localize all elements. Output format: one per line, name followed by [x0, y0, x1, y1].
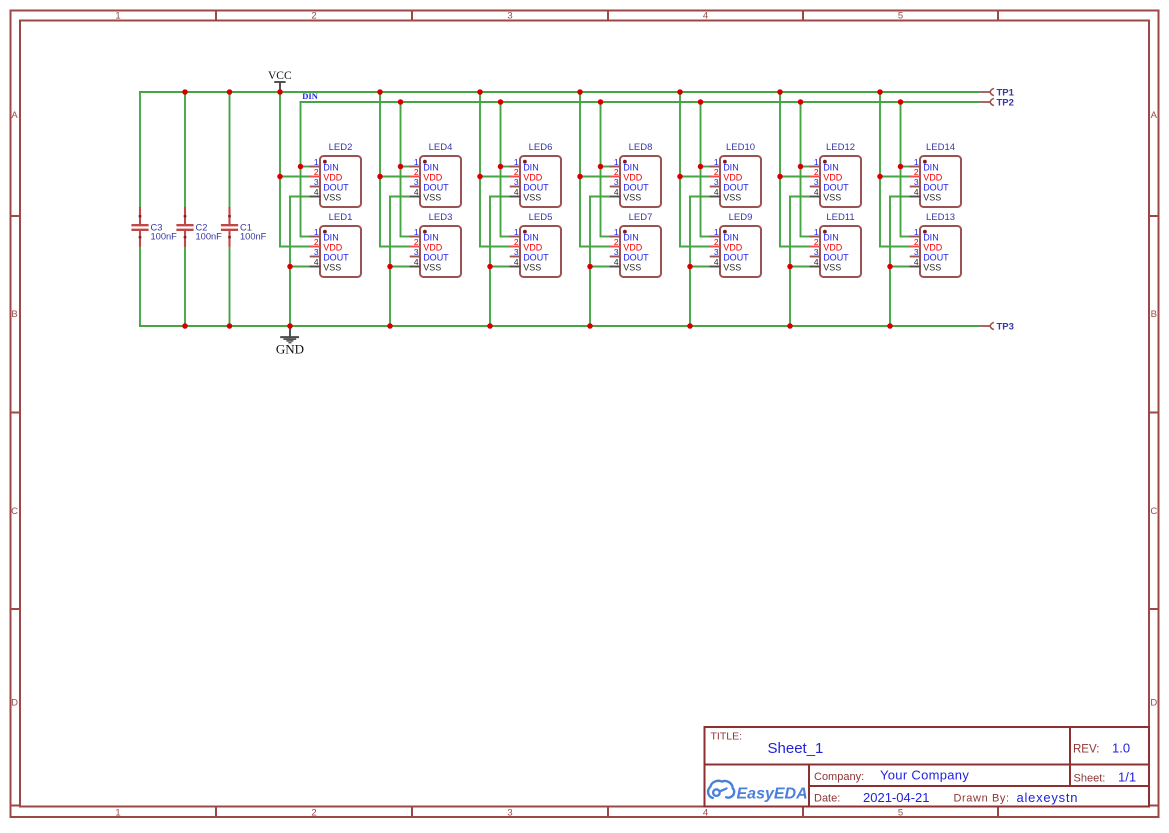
svg-text:VSS: VSS	[323, 263, 341, 273]
wire DIN rail	[300, 101, 980, 102]
svg-text:VSS: VSS	[923, 193, 941, 203]
svg-text:1: 1	[414, 227, 419, 237]
svg-text:DOUT: DOUT	[423, 253, 449, 263]
svg-text:Sheet:: Sheet:	[1074, 773, 1106, 785]
LED component LED4 (WS2812 style)	[410, 142, 461, 207]
svg-text:DOUT: DOUT	[923, 253, 949, 263]
svg-text:VDD: VDD	[823, 243, 843, 253]
svg-text:LED2: LED2	[329, 142, 353, 153]
svg-text:VDD: VDD	[723, 243, 743, 253]
LED component LED13 (WS2812 style)	[910, 212, 961, 277]
svg-text:VDD: VDD	[323, 243, 343, 253]
wire VSS return column 5	[689, 197, 711, 328]
svg-text:DOUT: DOUT	[623, 253, 649, 263]
svg-text:VSS: VSS	[823, 193, 841, 203]
svg-text:4: 4	[703, 808, 708, 819]
svg-text:DOUT: DOUT	[923, 183, 949, 193]
svg-text:REV:: REV:	[1073, 744, 1099, 756]
svg-text:VDD: VDD	[923, 173, 943, 183]
svg-text:5: 5	[898, 808, 903, 819]
svg-text:2: 2	[814, 237, 819, 247]
svg-text:VDD: VDD	[623, 173, 643, 183]
svg-text:2: 2	[414, 237, 419, 247]
svg-text:VSS: VSS	[623, 193, 641, 203]
svg-text:DOUT: DOUT	[523, 183, 549, 193]
svg-text:DOUT: DOUT	[723, 253, 749, 263]
svg-text:1: 1	[414, 157, 419, 167]
svg-text:DIN: DIN	[823, 163, 839, 173]
svg-text:1: 1	[314, 227, 319, 237]
svg-text:3: 3	[314, 247, 319, 257]
svg-text:A: A	[11, 110, 18, 121]
svg-text:3: 3	[507, 11, 512, 22]
svg-text:VSS: VSS	[623, 263, 641, 273]
svg-text:DIN: DIN	[523, 233, 539, 243]
svg-text:4: 4	[914, 187, 919, 197]
net label DIN	[302, 91, 318, 101]
LED component LED2 (WS2812 style)	[310, 142, 361, 207]
wire DIN feed column 1	[300, 102, 311, 237]
svg-text:3: 3	[714, 247, 719, 257]
svg-text:VDD: VDD	[523, 243, 543, 253]
wire VSS return column 6	[789, 197, 811, 328]
svg-text:VDD: VDD	[823, 173, 843, 183]
wire capacitor branch C2	[184, 91, 186, 327]
svg-text:VDD: VDD	[623, 243, 643, 253]
svg-text:3: 3	[314, 177, 319, 187]
svg-text:100nF: 100nF	[151, 231, 178, 241]
title block	[705, 727, 1150, 807]
svg-text:3: 3	[514, 247, 519, 257]
svg-text:DIN: DIN	[523, 163, 539, 173]
wire DIN feed column 6	[800, 102, 811, 237]
svg-text:DIN: DIN	[923, 163, 939, 173]
svg-text:1: 1	[914, 227, 919, 237]
svg-text:VDD: VDD	[423, 173, 443, 183]
LED component LED5 (WS2812 style)	[510, 212, 561, 277]
svg-text:2: 2	[914, 167, 919, 177]
svg-text:GND: GND	[276, 342, 304, 357]
svg-text:DIN: DIN	[302, 91, 318, 101]
svg-text:3: 3	[814, 177, 819, 187]
svg-text:2: 2	[514, 167, 519, 177]
svg-text:4: 4	[314, 257, 319, 267]
power flag VCC	[268, 70, 292, 92]
LED component LED7 (WS2812 style)	[610, 212, 661, 277]
svg-text:VSS: VSS	[723, 263, 741, 273]
svg-text:2: 2	[314, 167, 319, 177]
LED component LED3 (WS2812 style)	[410, 212, 461, 277]
svg-text:DIN: DIN	[323, 163, 339, 173]
wire VDD feed column 4	[579, 91, 611, 247]
svg-text:2: 2	[311, 11, 316, 22]
svg-text:3: 3	[514, 177, 519, 187]
svg-text:4: 4	[714, 257, 719, 267]
svg-text:4: 4	[914, 257, 919, 267]
svg-text:3: 3	[614, 247, 619, 257]
LED component LED6 (WS2812 style)	[510, 142, 561, 207]
svg-text:4: 4	[514, 257, 519, 267]
svg-text:4: 4	[614, 257, 619, 267]
svg-text:VSS: VSS	[423, 263, 441, 273]
svg-text:VDD: VDD	[723, 173, 743, 183]
svg-text:DIN: DIN	[823, 233, 839, 243]
svg-text:1: 1	[115, 808, 120, 819]
svg-text:DOUT: DOUT	[823, 253, 849, 263]
wire VDD feed column 7	[879, 91, 911, 247]
wire DIN feed column 7	[900, 102, 911, 237]
LED component LED11 (WS2812 style)	[810, 212, 861, 277]
svg-text:4: 4	[514, 187, 519, 197]
wire capacitor branch C3	[139, 91, 141, 327]
svg-text:1: 1	[614, 157, 619, 167]
capacitor C3 100nF	[131, 207, 177, 247]
svg-text:100nF: 100nF	[196, 231, 223, 241]
svg-text:LED8: LED8	[629, 142, 653, 153]
svg-text:1: 1	[514, 157, 519, 167]
svg-text:VSS: VSS	[723, 193, 741, 203]
test point TP3	[980, 321, 1014, 332]
svg-text:VSS: VSS	[323, 193, 341, 203]
svg-text:1: 1	[814, 157, 819, 167]
svg-text:LED13: LED13	[926, 212, 955, 223]
test point TP1	[980, 87, 1015, 98]
svg-text:DOUT: DOUT	[323, 253, 349, 263]
svg-text:4: 4	[414, 257, 419, 267]
svg-text:B: B	[1151, 309, 1157, 320]
test point TP2	[980, 97, 1014, 108]
svg-text:4: 4	[314, 187, 319, 197]
svg-text:2: 2	[714, 237, 719, 247]
wire capacitor branch C1	[229, 91, 231, 327]
svg-text:2: 2	[814, 167, 819, 177]
svg-text:VDD: VDD	[523, 173, 543, 183]
wire VCC top rail	[139, 91, 980, 93]
svg-text:1: 1	[714, 157, 719, 167]
LED component LED10 (WS2812 style)	[710, 142, 761, 207]
ground GND	[276, 326, 304, 357]
svg-text:2021-04-21: 2021-04-21	[863, 790, 930, 805]
svg-text:alexeystn: alexeystn	[1017, 790, 1079, 805]
svg-text:DOUT: DOUT	[623, 183, 649, 193]
LED component LED12 (WS2812 style)	[810, 142, 861, 207]
svg-text:1: 1	[314, 157, 319, 167]
svg-text:DOUT: DOUT	[823, 183, 849, 193]
svg-text:TITLE:: TITLE:	[711, 731, 743, 743]
svg-text:2: 2	[414, 167, 419, 177]
svg-text:LED7: LED7	[629, 212, 653, 223]
wire VSS return column 3	[489, 197, 511, 328]
svg-text:2: 2	[714, 167, 719, 177]
svg-text:1.0: 1.0	[1112, 741, 1130, 756]
svg-text:2: 2	[914, 237, 919, 247]
svg-text:C: C	[11, 506, 18, 517]
svg-text:Sheet_1: Sheet_1	[768, 740, 824, 757]
svg-text:3: 3	[714, 177, 719, 187]
svg-text:2: 2	[314, 237, 319, 247]
svg-text:EasyEDA: EasyEDA	[737, 786, 808, 803]
svg-text:LED3: LED3	[429, 212, 453, 223]
svg-text:5: 5	[898, 11, 903, 22]
svg-text:TP2: TP2	[997, 97, 1014, 108]
svg-text:VSS: VSS	[423, 193, 441, 203]
wire DIN feed column 4	[600, 102, 611, 237]
svg-text:D: D	[1150, 698, 1157, 709]
svg-text:DIN: DIN	[423, 163, 439, 173]
capacitor C2 100nF	[176, 207, 222, 247]
svg-text:VDD: VDD	[423, 243, 443, 253]
LED component LED9 (WS2812 style)	[710, 212, 761, 277]
svg-text:1: 1	[514, 227, 519, 237]
svg-text:LED6: LED6	[529, 142, 553, 153]
svg-text:C: C	[1150, 506, 1157, 517]
svg-text:1: 1	[814, 227, 819, 237]
wire DIN feed column 5	[700, 102, 711, 237]
svg-text:DIN: DIN	[723, 233, 739, 243]
svg-text:DIN: DIN	[623, 233, 639, 243]
svg-text:4: 4	[414, 187, 419, 197]
svg-text:LED11: LED11	[826, 212, 854, 223]
wire VDD feed column 3	[479, 91, 511, 247]
svg-text:1: 1	[914, 157, 919, 167]
svg-text:B: B	[11, 309, 17, 320]
svg-text:D: D	[11, 698, 18, 709]
svg-text:3: 3	[507, 808, 512, 819]
svg-text:VDD: VDD	[323, 173, 343, 183]
svg-text:4: 4	[814, 187, 819, 197]
svg-text:3: 3	[414, 177, 419, 187]
svg-text:3: 3	[614, 177, 619, 187]
svg-text:DIN: DIN	[923, 233, 939, 243]
wire DIN feed column 3	[500, 102, 511, 237]
wire VSS return column 7	[889, 197, 911, 328]
svg-text:VSS: VSS	[523, 263, 541, 273]
LED component LED1 (WS2812 style)	[310, 212, 361, 277]
wire DIN feed column 2	[400, 102, 411, 237]
svg-text:Your Company: Your Company	[880, 768, 969, 783]
svg-text:1: 1	[614, 227, 619, 237]
svg-text:100nF: 100nF	[240, 231, 267, 241]
wire VSS return column 2	[389, 197, 411, 328]
svg-text:3: 3	[914, 247, 919, 257]
svg-text:DIN: DIN	[723, 163, 739, 173]
svg-text:1: 1	[115, 11, 120, 22]
wire VDD feed column 6	[779, 91, 811, 247]
svg-text:LED1: LED1	[329, 212, 353, 223]
svg-text:LED4: LED4	[429, 142, 453, 153]
wire VSS return column 1	[289, 197, 311, 328]
svg-text:DIN: DIN	[423, 233, 439, 243]
svg-text:2: 2	[614, 167, 619, 177]
svg-text:DIN: DIN	[323, 233, 339, 243]
svg-text:2: 2	[311, 808, 316, 819]
svg-text:LED10: LED10	[726, 142, 755, 153]
svg-text:3: 3	[814, 247, 819, 257]
svg-text:VCC: VCC	[268, 70, 292, 82]
LED component LED8 (WS2812 style)	[610, 142, 661, 207]
wire GND bottom rail	[139, 325, 980, 327]
svg-text:Drawn By:: Drawn By:	[954, 793, 1010, 805]
svg-text:Company:: Company:	[814, 771, 864, 783]
svg-text:VSS: VSS	[523, 193, 541, 203]
svg-text:DOUT: DOUT	[523, 253, 549, 263]
svg-text:A: A	[1151, 110, 1158, 121]
svg-text:1: 1	[714, 227, 719, 237]
svg-text:TP3: TP3	[997, 321, 1014, 332]
svg-text:DOUT: DOUT	[723, 183, 749, 193]
svg-text:LED12: LED12	[826, 142, 855, 153]
svg-text:1/1: 1/1	[1118, 770, 1136, 785]
svg-text:4: 4	[614, 187, 619, 197]
svg-text:4: 4	[703, 11, 708, 22]
svg-text:3: 3	[414, 247, 419, 257]
svg-text:VSS: VSS	[823, 263, 841, 273]
svg-text:DIN: DIN	[623, 163, 639, 173]
LED component LED14 (WS2812 style)	[910, 142, 961, 207]
EasyEDA logo	[708, 781, 808, 803]
wire junction dots	[182, 89, 903, 329]
svg-text:DOUT: DOUT	[323, 183, 349, 193]
wire VDD feed column 5	[679, 91, 711, 247]
svg-text:3: 3	[914, 177, 919, 187]
wire VDD feed column 1	[279, 91, 311, 247]
svg-text:VSS: VSS	[923, 263, 941, 273]
svg-text:VDD: VDD	[923, 243, 943, 253]
capacitor C1 100nF	[221, 207, 267, 247]
svg-text:LED5: LED5	[529, 212, 553, 223]
svg-text:LED9: LED9	[729, 212, 753, 223]
svg-text:LED14: LED14	[926, 142, 955, 153]
svg-text:4: 4	[714, 187, 719, 197]
wire VDD feed column 2	[379, 91, 411, 247]
svg-text:Date:: Date:	[814, 793, 840, 805]
svg-text:DOUT: DOUT	[423, 183, 449, 193]
svg-text:4: 4	[814, 257, 819, 267]
svg-text:2: 2	[514, 237, 519, 247]
svg-text:2: 2	[614, 237, 619, 247]
wire VSS return column 4	[589, 197, 611, 328]
